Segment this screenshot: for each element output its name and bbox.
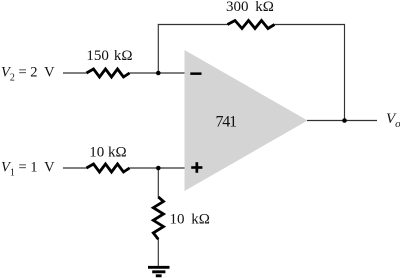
svg-text:300 kΩ: 300 kΩ: [226, 0, 274, 15]
svg-text:741: 741: [216, 113, 238, 130]
svg-text:10 kΩ: 10 kΩ: [89, 145, 126, 161]
svg-text:V2 = 2 V: V2 = 2 V: [1, 65, 55, 84]
svg-text:150 kΩ: 150 kΩ: [86, 48, 132, 64]
svg-text:V1 = 1 V: V1 = 1 V: [1, 160, 55, 179]
svg-text:10 kΩ: 10 kΩ: [170, 211, 210, 227]
